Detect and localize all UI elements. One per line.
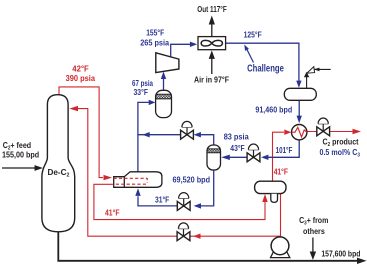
wire: 31F valve to chiller bottom navy: [135, 188, 177, 206]
svg-text:42°F: 42°F: [72, 64, 89, 74]
wire: overhead line red column to coil: [59, 87, 112, 180]
wire: drum bottom to HX navy: [297, 100, 302, 123]
wire: vapor valve to riser junction navy: [138, 132, 181, 137]
heat exchanger circle: [292, 125, 307, 140]
wire: reflux line red pump to column: [69, 106, 280, 236]
wire: drum nozzle to pump red: [280, 194, 282, 237]
svg-text:31°F: 31°F: [155, 195, 169, 205]
svg-text:69,520 bpd: 69,520 bpd: [173, 175, 211, 185]
valve reflux: [177, 223, 190, 241]
svg-text:Air in 97°F: Air in 97°F: [194, 75, 229, 85]
wire: product line red with arrow: [307, 129, 361, 135]
svg-text:0.5 mol% C3: 0.5 mol% C3: [320, 147, 361, 159]
svg-text:C3+ from: C3+ from: [299, 215, 328, 227]
svg-text:41°F: 41°F: [105, 207, 120, 217]
arrow into reflux valve red: [193, 234, 200, 239]
wire: chiller top riser to knockout navy: [138, 100, 156, 172]
svg-text:De-C2: De-C2: [48, 167, 70, 179]
challenge arrow navy: [244, 45, 253, 63]
svg-text:265 psia: 265 psia: [140, 38, 169, 48]
svg-text:390 psia: 390 psia: [66, 73, 96, 83]
svg-text:91,460 bpd: 91,460 bpd: [255, 104, 292, 114]
bottoms line black with arrow: [58, 232, 366, 264]
svg-text:155,00 bpd: 155,00 bpd: [2, 150, 39, 160]
svg-text:125°F: 125°F: [244, 29, 262, 39]
valve letdown (valve2): [247, 144, 260, 162]
wire: HX outlet navy to letdown valve 101F: [261, 140, 299, 160]
svg-text:155°F: 155°F: [146, 27, 164, 37]
C3+ from others arrow: [310, 238, 316, 261]
wire: knockout top to compressor navy: [161, 72, 166, 91]
svg-text:Out 117°F: Out 117°F: [197, 4, 226, 14]
wire: flash drum bottom to 31F valve navy: [194, 170, 214, 209]
air in arrow: [209, 50, 215, 74]
wire: cooler outlet navy to suction drum: [226, 43, 302, 88]
knockout drum: [156, 90, 172, 117]
wire: flash drum top to vapor valve navy: [194, 132, 214, 145]
svg-text:157,600 bpd: 157,600 bpd: [321, 248, 360, 258]
svg-text:41°F: 41°F: [274, 167, 288, 177]
wire: coil outlet red to reflux drum: [94, 184, 268, 219]
svg-text:43°F: 43°F: [230, 143, 244, 153]
air cooler: [198, 37, 226, 50]
suction drum 91460: [284, 88, 316, 100]
reflux drum 41F: [255, 181, 286, 202]
wire: compressor discharge navy to cooler: [171, 42, 198, 57]
valve vapor (valve1): [181, 121, 194, 139]
column De-C2: [42, 95, 75, 232]
svg-text:33°F: 33°F: [134, 87, 149, 97]
flash drum capsule 83psia: [207, 145, 221, 170]
valve product: [317, 118, 330, 136]
valve 31F: [177, 193, 190, 211]
air out arrow: [209, 16, 215, 37]
compressor: [156, 53, 179, 73]
feed arrow: [2, 165, 43, 171]
svg-text:101°F: 101°F: [276, 145, 293, 155]
svg-text:Challenge: Challenge: [247, 64, 284, 75]
svg-text:others: others: [303, 226, 325, 236]
wire: drum vapor to heat exchanger red: [273, 130, 292, 182]
wire: valve to flash drum navy: [221, 155, 247, 160]
pump: [271, 237, 290, 258]
relief vent symbol: [304, 67, 331, 89]
svg-text:83 psia: 83 psia: [224, 132, 249, 142]
coil dashed red inside chiller: [114, 178, 148, 184]
chiller vessel horizontal: [114, 172, 162, 188]
